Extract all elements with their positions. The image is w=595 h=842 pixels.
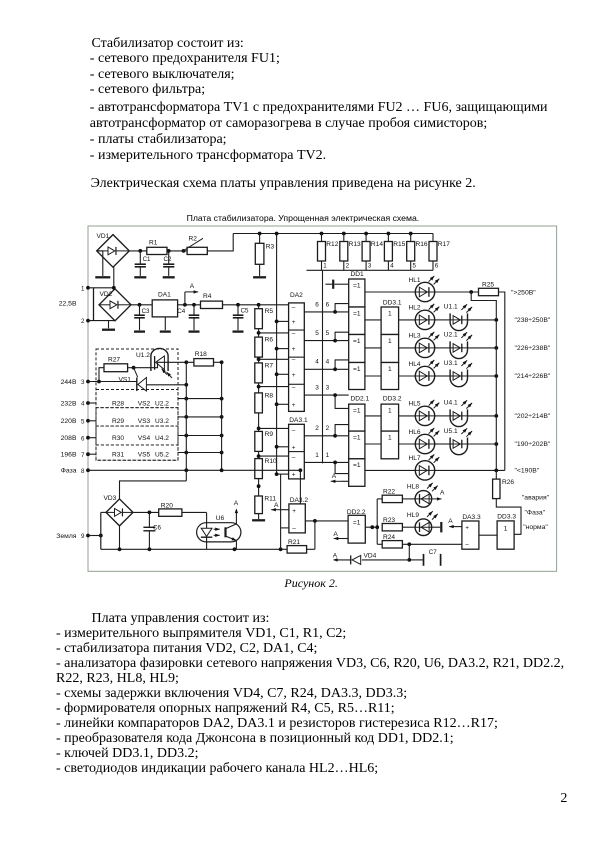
svg-text:DD1: DD1 — [351, 271, 365, 278]
svg-text:U2.1: U2.1 — [444, 332, 458, 339]
svg-text:–: – — [292, 455, 296, 462]
svg-text:R17: R17 — [438, 241, 450, 248]
svg-text:R20: R20 — [161, 502, 173, 509]
svg-text:=1: =1 — [353, 282, 361, 289]
svg-text:Фаза: Фаза — [61, 468, 77, 475]
svg-text:"авария": "авария" — [522, 495, 550, 502]
svg-text:R31: R31 — [112, 452, 124, 459]
svg-text:VD1: VD1 — [97, 233, 110, 240]
svg-text:1: 1 — [388, 310, 392, 317]
svg-text:DD2.1: DD2.1 — [351, 396, 370, 403]
svg-text:5: 5 — [326, 330, 330, 337]
svg-text:U4.2: U4.2 — [155, 435, 169, 442]
svg-text:А: А — [333, 531, 338, 538]
svg-text:R14: R14 — [371, 241, 383, 248]
svg-text:HL3: HL3 — [409, 333, 421, 340]
svg-text:5: 5 — [81, 418, 85, 425]
svg-text:+: + — [292, 508, 296, 515]
svg-text:VD4: VD4 — [364, 553, 377, 560]
svg-text:VD2: VD2 — [100, 291, 113, 298]
svg-text:R2: R2 — [189, 236, 198, 243]
svg-text:3: 3 — [368, 263, 372, 270]
svg-text:U3.2: U3.2 — [155, 418, 169, 425]
svg-text:DD2.2: DD2.2 — [347, 509, 366, 516]
svg-text:+: + — [292, 444, 296, 451]
svg-text:R25: R25 — [482, 282, 494, 289]
svg-text:VS1: VS1 — [119, 376, 132, 383]
svg-text:DA3.3: DA3.3 — [462, 514, 481, 521]
svg-text:U1.1: U1.1 — [444, 304, 458, 311]
svg-text:C1: C1 — [143, 256, 151, 263]
svg-text:DD3.1: DD3.1 — [383, 299, 402, 306]
svg-text:6: 6 — [81, 435, 85, 442]
svg-text:=1: =1 — [353, 462, 361, 469]
svg-text:R21: R21 — [288, 539, 300, 546]
svg-text:"<190В": "<190В" — [515, 468, 540, 475]
svg-text:244В: 244В — [61, 379, 77, 386]
svg-text:1: 1 — [504, 526, 508, 533]
svg-text:HL1: HL1 — [409, 277, 421, 284]
svg-text:C3: C3 — [142, 308, 150, 315]
svg-text:"норма": "норма" — [523, 524, 548, 531]
svg-text:VD3: VD3 — [104, 495, 117, 502]
svg-text:U6: U6 — [216, 515, 225, 522]
svg-text:3: 3 — [326, 385, 330, 392]
svg-text:HL6: HL6 — [409, 429, 421, 436]
svg-text:А: А — [190, 283, 195, 290]
svg-text:1: 1 — [315, 452, 319, 459]
svg-text:=1: =1 — [353, 407, 361, 414]
svg-text:2: 2 — [315, 425, 319, 432]
svg-text:R13: R13 — [349, 241, 361, 248]
svg-text:"190÷202В": "190÷202В" — [515, 441, 551, 448]
svg-text:">250В": ">250В" — [511, 289, 536, 296]
svg-text:VS2: VS2 — [138, 400, 151, 407]
svg-text:196В: 196В — [61, 452, 77, 459]
svg-text:4: 4 — [81, 401, 85, 408]
svg-text:1: 1 — [388, 338, 392, 345]
svg-text:R6: R6 — [265, 337, 274, 344]
svg-text:R9: R9 — [265, 431, 274, 438]
svg-text:R22: R22 — [383, 489, 395, 496]
svg-text:3: 3 — [315, 385, 319, 392]
svg-text:5: 5 — [413, 263, 417, 270]
svg-text:"214÷226В": "214÷226В" — [515, 373, 551, 380]
svg-text:R24: R24 — [383, 534, 395, 541]
svg-text:3: 3 — [81, 379, 85, 386]
svg-text:R18: R18 — [195, 351, 207, 358]
svg-text:+: + — [292, 319, 296, 326]
svg-text:DD3.3: DD3.3 — [497, 514, 516, 521]
svg-text:4: 4 — [390, 263, 394, 270]
svg-text:–: – — [292, 526, 296, 533]
svg-text:1: 1 — [388, 366, 392, 373]
svg-text:+: + — [465, 524, 469, 531]
svg-text:22,5В: 22,5В — [59, 300, 77, 307]
svg-text:8: 8 — [81, 468, 85, 475]
svg-text:R12: R12 — [326, 241, 338, 248]
svg-text:C4: C4 — [177, 308, 185, 315]
svg-text:1: 1 — [388, 434, 392, 441]
svg-text:R3: R3 — [266, 243, 275, 250]
svg-text:1: 1 — [81, 285, 85, 292]
svg-text:R4: R4 — [203, 293, 212, 300]
svg-text:HL2: HL2 — [409, 305, 421, 312]
svg-text:"238÷250В": "238÷250В" — [515, 317, 551, 324]
svg-text:=1: =1 — [353, 310, 361, 317]
svg-text:DA2: DA2 — [290, 292, 303, 299]
svg-text:DA3.2: DA3.2 — [290, 497, 309, 504]
svg-text:+: + — [292, 346, 296, 353]
svg-text:HL8: HL8 — [407, 484, 419, 491]
svg-text:9: 9 — [81, 533, 85, 540]
svg-text:А: А — [274, 502, 279, 509]
svg-text:А: А — [440, 490, 445, 497]
svg-text:HL7: HL7 — [409, 455, 421, 462]
svg-text:6: 6 — [326, 301, 330, 308]
svg-text:–: – — [292, 384, 296, 391]
svg-text:R16: R16 — [416, 241, 428, 248]
svg-text:R23: R23 — [383, 517, 395, 524]
svg-text:+: + — [292, 402, 296, 409]
svg-text:R28: R28 — [112, 400, 124, 407]
svg-text:–: – — [292, 427, 296, 434]
svg-text:R27: R27 — [108, 356, 120, 363]
svg-text:–: – — [292, 357, 296, 364]
svg-text:"202÷214В": "202÷214В" — [515, 413, 551, 420]
svg-text:220В: 220В — [61, 418, 77, 425]
svg-text:C7: C7 — [429, 549, 437, 556]
svg-text:+: + — [292, 372, 296, 379]
svg-text:VS3: VS3 — [138, 418, 151, 425]
svg-text:VS5: VS5 — [138, 452, 151, 459]
svg-text:C2: C2 — [164, 256, 172, 263]
svg-text:R10: R10 — [265, 458, 277, 465]
svg-text:6: 6 — [435, 263, 439, 270]
svg-text:DA1: DA1 — [158, 291, 171, 298]
svg-text:1: 1 — [323, 263, 327, 270]
svg-text:"Фаза": "Фаза" — [525, 509, 546, 516]
svg-text:=1: =1 — [353, 434, 361, 441]
svg-text:HL4: HL4 — [409, 361, 421, 368]
svg-text:U5.2: U5.2 — [155, 452, 169, 459]
svg-text:232В: 232В — [61, 400, 77, 407]
svg-text:=1: =1 — [353, 366, 361, 373]
svg-text:6: 6 — [315, 301, 319, 308]
svg-text:DA3.1: DA3.1 — [289, 417, 308, 424]
svg-text:2: 2 — [346, 263, 350, 270]
svg-text:U3.1: U3.1 — [444, 360, 458, 367]
svg-text:R5: R5 — [265, 308, 274, 315]
svg-text:=1: =1 — [353, 338, 361, 345]
svg-text:2: 2 — [81, 318, 85, 325]
svg-text:5: 5 — [315, 330, 319, 337]
svg-text:DD3.2: DD3.2 — [383, 396, 402, 403]
svg-text:А: А — [333, 552, 338, 559]
svg-text:U1.2: U1.2 — [136, 352, 150, 359]
svg-text:HL5: HL5 — [409, 401, 421, 408]
svg-text:4: 4 — [315, 359, 319, 366]
svg-text:1: 1 — [388, 407, 392, 414]
svg-text:U5.1: U5.1 — [444, 428, 458, 435]
svg-text:Земля: Земля — [56, 533, 77, 540]
svg-text:=1: =1 — [353, 519, 361, 526]
svg-text:+: + — [292, 472, 296, 479]
svg-text:–: – — [292, 304, 296, 311]
svg-text:R8: R8 — [265, 392, 274, 399]
svg-text:R15: R15 — [393, 241, 405, 248]
svg-text:U4.1: U4.1 — [444, 400, 458, 407]
svg-text:C5: C5 — [241, 308, 249, 315]
svg-text:7: 7 — [81, 452, 85, 459]
svg-text:1: 1 — [326, 452, 330, 459]
svg-text:2: 2 — [326, 425, 330, 432]
svg-text:R30: R30 — [112, 435, 124, 442]
svg-text:R1: R1 — [149, 239, 158, 246]
svg-text:VS4: VS4 — [138, 435, 151, 442]
svg-text:–: – — [465, 541, 469, 548]
svg-text:А: А — [332, 473, 337, 480]
svg-text:U2.2: U2.2 — [155, 400, 169, 407]
svg-text:А: А — [448, 518, 453, 525]
svg-text:"226÷238В": "226÷238В" — [515, 345, 551, 352]
svg-text:R7: R7 — [265, 362, 274, 369]
svg-text:R29: R29 — [112, 418, 124, 425]
svg-text:C6: C6 — [153, 525, 161, 532]
svg-text:А: А — [234, 500, 239, 507]
svg-text:R26: R26 — [502, 479, 514, 486]
svg-text:–: – — [292, 330, 296, 337]
svg-text:4: 4 — [326, 359, 330, 366]
svg-text:HL9: HL9 — [407, 512, 419, 519]
svg-text:208В: 208В — [61, 435, 77, 442]
